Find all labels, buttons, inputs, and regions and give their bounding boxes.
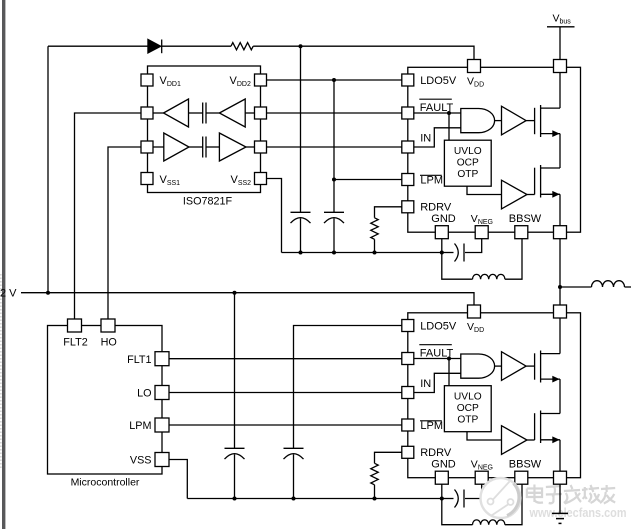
svg-text:RDRV: RDRV (420, 202, 452, 214)
U3 buffer A to gate wire (526, 365, 535, 367)
wire FLT1 to U3 FAULT (169, 358, 402, 360)
U3 AND output wire (495, 365, 502, 367)
Q-U2-high source stub (541, 133, 560, 135)
channel A right triangle (points left) (219, 99, 245, 127)
capacitor C6 (VNEG) (442, 498, 454, 500)
svg-text:GND: GND (431, 213, 456, 225)
U2 buffer B to gate wire (527, 194, 535, 196)
U3 wire tap to UVLO box (448, 359, 450, 386)
node top rail / bypass junction (299, 44, 303, 48)
channel B internal wires (153, 146, 164, 148)
svg-text:FAULT: FAULT (420, 102, 454, 114)
wire diode to resistor (162, 45, 231, 47)
pin LDO5V U3 (402, 320, 414, 332)
svg-text:GND: GND (431, 459, 456, 471)
svg-text:LO: LO (137, 388, 151, 400)
capacitor C1 (291, 211, 311, 213)
pin BBSW U2 (515, 226, 528, 239)
svg-text:OCP: OCP (457, 403, 479, 414)
pin FLT1 micro (155, 352, 169, 366)
buffer U2-A (high side) (502, 106, 527, 135)
Q-U2-low drain stub (541, 167, 560, 169)
svg-text:FLT1: FLT1 (127, 354, 151, 366)
diode D1 (148, 39, 161, 53)
transistor Q-U3-low channel bar (540, 411, 542, 444)
wire bypass line 3 (from 2V rail) (234, 293, 236, 449)
svg-text:ISO7821F: ISO7821F (183, 196, 233, 208)
pin VSS2 (255, 173, 267, 185)
left window border bar (2, 0, 5, 529)
svg-text:LPM: LPM (420, 420, 443, 432)
ground symbol (552, 512, 568, 514)
Q-U2-low source stub (541, 193, 560, 195)
Q-U3-low source arrow (552, 436, 559, 443)
wire ISO INA to driver FAULT (267, 112, 402, 114)
U2 half-bridge vertical wires (559, 73, 561, 109)
wire LPM to U3 LPM (169, 424, 402, 426)
node gnd C1 (299, 251, 303, 255)
pin RDRV U3 (402, 446, 414, 458)
buffer U3-B (low side) (502, 426, 528, 455)
node gnd R3 (373, 497, 377, 501)
wire LPM tap to driver LPM (334, 179, 402, 181)
wire bottom section ground rail (187, 498, 441, 500)
Q-U3-high drain stub (541, 353, 560, 355)
pin RDRV U2 (402, 201, 414, 213)
and-gate U3 (461, 354, 495, 378)
channel A internal wires (153, 112, 164, 114)
resistor R2 (371, 218, 378, 240)
pin LPM micro (155, 418, 169, 432)
U3 buffer B to gate wire (527, 439, 535, 441)
capacitor C5 (284, 447, 304, 449)
node gnd R2 (373, 251, 377, 255)
wire bypass line 2 (from LDO5V) (333, 80, 335, 212)
gate driver U2 box (408, 67, 581, 232)
svg-text:LDO5V: LDO5V (420, 75, 457, 87)
transistor Q-U2-high gate bar (534, 108, 536, 134)
svg-text:LPM: LPM (129, 420, 151, 432)
Q-U3-high source stub (541, 378, 560, 380)
U2 GND pin stub wire (441, 239, 443, 253)
transistor Q-U3-high channel bar (540, 351, 542, 383)
inductor L1 (BBSW) (442, 253, 473, 280)
wire top section ground rail (282, 252, 442, 254)
watermark logo circle (481, 478, 521, 518)
node LDO5V bypass tap (332, 78, 336, 82)
pin IN U2 (402, 141, 414, 153)
pin OUTA (141, 107, 153, 119)
pin FLT2 micro (68, 319, 82, 332)
channel B isolation capacitor (202, 137, 204, 158)
svg-text:LPM: LPM (420, 175, 443, 187)
Q-U2-low source arrow (552, 191, 559, 198)
svg-text:2 V: 2 V (0, 287, 17, 299)
and-gate U2 (461, 109, 495, 133)
node gnd driver GND (440, 251, 444, 255)
channel B right triangle (points right) (219, 133, 246, 161)
pin SW-bot U2 (554, 226, 567, 239)
channel B left triangle (points right) (164, 133, 189, 161)
U2 AND output wire (495, 120, 502, 122)
pin FAULT U3 (402, 353, 414, 365)
transistor Q-U2-low channel bar (540, 165, 542, 198)
U3 FAULT wire to AND gate (414, 358, 461, 360)
svg-text:RDRV: RDRV (420, 447, 452, 459)
channel A left triangle (points left) (164, 99, 189, 127)
wire top rail left vertical (47, 46, 49, 293)
svg-text:FAULT: FAULT (420, 348, 454, 360)
wire resistor to VDD pin corner (253, 46, 474, 59)
node gnd C4 (233, 497, 237, 501)
wire RDRV to resistor R2 (375, 207, 402, 218)
inductor L3 (output) (592, 281, 625, 287)
pin GND U3 (435, 471, 448, 484)
wire VSS to bottom rail (169, 460, 187, 499)
wire bypass line 1 (from top rail) (300, 46, 302, 212)
pin GND U2 (435, 226, 448, 239)
buffer U2-B (low side) (502, 180, 528, 209)
U2 buffer A to gate wire (526, 120, 535, 122)
buffer U3-A (high side) (502, 352, 527, 381)
U3 GND pin stub wire (441, 484, 443, 498)
transistor Q-U3-low gate bar (534, 413, 536, 440)
U3 UVLO to buffer B wire (467, 432, 502, 440)
wire VSS2 down to ground rail (267, 179, 282, 253)
capacitor C3 (VNEG) (442, 252, 454, 254)
node gnd U3 GND (440, 497, 444, 501)
wire ISO OUTA to microcontroller FLT2 (75, 113, 142, 319)
node gnd C2 (332, 251, 336, 255)
svg-text:www.elecfans.com: www.elecfans.com (529, 506, 627, 520)
pin SW-top U3 (554, 305, 567, 318)
U2 wire tap to UVLO box (448, 113, 450, 140)
U3 node FAULT/UVLO tap (447, 357, 451, 361)
pin VDD2 (255, 74, 267, 86)
Q-U2-high source arrow (552, 130, 559, 137)
Q-U3-low drain stub (541, 413, 560, 415)
wire top rail horizontal (left of diode) (48, 45, 148, 47)
pin LPM U3 (402, 419, 414, 431)
svg-text:OTP: OTP (457, 169, 478, 180)
svg-text:OCP: OCP (457, 157, 479, 168)
pin IN U3 (402, 387, 414, 399)
pin VDD U3 (468, 305, 481, 318)
pin VDD U2 (468, 60, 481, 73)
svg-text:Microcontroller: Microcontroller (71, 477, 140, 489)
wire U3 SW-bot to ground (559, 484, 561, 513)
svg-text:IN: IN (420, 133, 431, 145)
pin VNEG U3 (475, 471, 488, 484)
pin BBSW U3 (515, 471, 528, 484)
wire U3 LDO5V to bypass line 4 (294, 326, 402, 449)
wire ISO OUTB to driver IN (267, 146, 402, 148)
node LPM tap (332, 178, 336, 182)
U2 node FAULT/UVLO tap (447, 111, 451, 115)
svg-text:FLT2: FLT2 (63, 337, 87, 349)
wire U3 RDRV to resistor R3 (375, 452, 402, 463)
transistor Q-U2-high channel bar (540, 105, 542, 137)
isolator U1 box ISO7821F (148, 66, 261, 193)
capacitor C4 (225, 447, 245, 449)
UVLO OCP OTP box U3 (444, 386, 491, 432)
inductor L2 (BBSW) (442, 499, 473, 525)
svg-text:UVLO: UVLO (454, 391, 482, 402)
V_bus terminal bar (547, 26, 575, 28)
capacitor C2 (324, 211, 344, 213)
Q-U3-high source arrow (552, 376, 559, 383)
pin VSS1 (141, 173, 153, 185)
pin LPM U2 (402, 174, 414, 186)
pin FAULT U2 (402, 107, 414, 119)
wire switch node to output inductor (560, 286, 592, 288)
svg-text:BBSW: BBSW (509, 213, 542, 225)
U3 IN wire to AND gate (414, 373, 461, 392)
pin INB (141, 141, 153, 153)
svg-text:BBSW: BBSW (509, 459, 542, 471)
svg-text:UVLO: UVLO (454, 146, 482, 157)
pin INA (255, 107, 267, 119)
svg-text:HO: HO (101, 337, 117, 349)
channel A isolation capacitor (202, 103, 204, 124)
wire 2V rail (21, 293, 474, 305)
svg-text:LDO5V: LDO5V (420, 321, 457, 333)
pin LDO5V U2 (402, 74, 414, 86)
U2 IN wire to AND gate (414, 128, 461, 147)
pin VDD1 (141, 74, 153, 86)
node gnd C5 (292, 497, 296, 501)
U2 UVLO to buffer B wire (467, 186, 502, 194)
pin SW-top U2 (554, 60, 567, 73)
wire LO to U3 IN (169, 392, 402, 394)
svg-text:IN: IN (420, 378, 431, 390)
pin VSS micro (155, 453, 169, 467)
Q-U3-low source stub (541, 439, 560, 441)
resistor R3 (371, 463, 378, 485)
svg-text:VSS: VSS (130, 455, 152, 467)
gate driver U3 box (408, 313, 581, 478)
watermark chinese characters (527, 485, 615, 504)
svg-text:OTP: OTP (457, 415, 478, 426)
Q-U2-high drain stub (541, 107, 560, 109)
pin VNEG U2 (475, 226, 488, 239)
UVLO OCP OTP box U2 (444, 140, 491, 186)
node rail/left wire (46, 291, 50, 295)
wire VDD2 to LDO5V (267, 79, 402, 81)
node switch output (558, 285, 562, 289)
U3 half-bridge vertical wires (559, 318, 561, 354)
microcontroller box (48, 326, 163, 475)
pin HO micro (101, 319, 115, 332)
transistor Q-U3-high gate bar (534, 353, 536, 379)
pin LO micro (155, 386, 169, 400)
resistor R1 (231, 43, 253, 50)
pin SW-bot U3 (554, 471, 567, 484)
node rail/bypass (233, 291, 237, 295)
wire inductor to right edge (625, 286, 631, 288)
U2 FAULT wire to AND gate (414, 112, 461, 114)
wire ISO INB to microcontroller HO (108, 147, 141, 319)
wire V_bus to SW-top pin (559, 27, 561, 60)
pin OUTB (255, 141, 267, 153)
wire half-bridge output node (559, 239, 561, 305)
transistor Q-U2-low gate bar (534, 168, 536, 195)
